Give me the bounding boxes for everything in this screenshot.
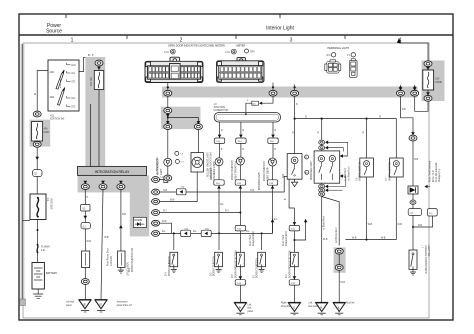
wire ignition ACC to B-F band	[79, 57, 99, 71]
connector mark GRY	[245, 49, 249, 53]
svg-text:w/ Motor Roof: w/ Motor Roof	[323, 216, 326, 230]
option return arrows	[325, 185, 328, 189]
connector mark P1	[351, 53, 355, 57]
wire lamp box to relay pin3	[159, 172, 197, 202]
relay right pin 2	[151, 190, 154, 194]
B-F harness band	[85, 57, 105, 167]
svg-text:DOOR COURTESY: DOOR COURTESY	[232, 160, 234, 180]
fuse 40A MAIN	[32, 122, 43, 142]
svg-text:panel: panel	[248, 311, 254, 313]
stub from connector A	[167, 83, 169, 91]
svg-text:O-R: O-R	[250, 190, 254, 192]
wire relay pin5 to courtesy sw front LH	[159, 223, 171, 233]
svg-text:Roof left: Roof left	[346, 302, 355, 305]
connector mark C9b	[175, 160, 179, 164]
svg-text:R-B: R-B	[122, 214, 126, 216]
svg-text:1E: 1E	[34, 174, 37, 176]
wire relay pin4 to chain B	[159, 212, 240, 214]
junction splice	[167, 117, 169, 119]
wire ignition to main fuse	[37, 71, 48, 112]
svg-text:W-B: W-B	[398, 224, 403, 226]
wire splice to key cyl lamp	[167, 129, 169, 158]
svg-text:INTERIOR LIGHT: INTERIOR LIGHT	[259, 171, 261, 190]
relay right pin 5	[151, 221, 154, 225]
column ticks	[126, 35, 128, 39]
chain relay pin1 down: wire P	[84, 189, 86, 204]
connector mark W2	[331, 53, 335, 57]
chain relay pin3 down	[120, 189, 122, 251]
chain B door courtesy light front	[240, 143, 242, 157]
left band bottom cap	[20, 299, 26, 306]
svg-text:W-B: W-B	[323, 239, 328, 241]
inner drawing box	[23, 43, 429, 318]
lamp ignition key cylinder light	[164, 158, 172, 166]
svg-text:From CD Automatic: From CD Automatic	[435, 161, 438, 182]
svg-text:C 10: C 10	[225, 52, 231, 54]
inline comp T10	[176, 189, 186, 195]
svg-text:Deterrent ECU: Deterrent ECU	[285, 231, 288, 246]
svg-text:DOOR COURTESY: DOOR COURTESY	[214, 256, 216, 276]
svg-text:Interior Light: Interior Light	[266, 26, 294, 32]
svg-text:LIGHT SW: LIGHT SW	[427, 245, 429, 257]
inline code comp D14	[181, 230, 191, 236]
fusible link FL MAIN	[37, 245, 38, 252]
J3 drop C	[272, 122, 274, 138]
svg-text:W-B: W-B	[87, 241, 92, 243]
relay right pin 4	[151, 211, 154, 215]
svg-text:CYLINDER LIGHT: CYLINDER LIGHT	[214, 161, 216, 180]
relay bottom pin 2	[101, 181, 105, 184]
junction courtesy rear RH	[261, 232, 263, 234]
inline code comp D15	[201, 230, 211, 236]
ground triangle center	[95, 300, 107, 312]
node dot A	[167, 86, 169, 88]
svg-text:DOOR OPEN DETECTION: DOOR OPEN DETECTION	[289, 250, 291, 278]
svg-text:From Theft Deterrent: From Theft Deterrent	[429, 161, 432, 182]
svg-text:VANITY LIGHT LH: VANITY LIGHT LH	[359, 162, 362, 181]
svg-text:From Power Door: From Power Door	[107, 248, 110, 266]
connector oval B-F	[95, 60, 103, 66]
connector oval dome bottom	[424, 95, 432, 101]
svg-text:IH: IH	[239, 305, 242, 309]
ignition switch H11	[48, 60, 79, 121]
node dot B	[272, 86, 274, 88]
page arrow up	[397, 38, 401, 43]
svg-text:kick panel: kick panel	[281, 306, 292, 308]
svg-text:LIGHT [COMB. METER]: LIGHT [COMB. METER]	[205, 152, 207, 177]
code pill	[412, 204, 414, 208]
door courtesy sw front RH	[215, 252, 223, 266]
svg-text:kick panel: kick panel	[309, 306, 320, 308]
wire dome to band node E	[415, 96, 428, 111]
R-L bus from relay pin6	[159, 232, 180, 234]
svg-text:LIGHT: LIGHT	[161, 168, 163, 175]
fuse 15A TAIL	[94, 71, 103, 90]
door control rect	[82, 251, 90, 268]
personal light box R15	[314, 151, 340, 183]
header separator line	[19, 34, 453, 36]
junction	[37, 229, 39, 231]
svg-text:IE: IE	[83, 303, 86, 307]
wire band C to interior light	[294, 96, 296, 154]
battery	[32, 263, 58, 290]
svg-text:panel brace LH: panel brace LH	[117, 304, 133, 307]
ground triangle left kick	[316, 302, 328, 314]
luggage compartment light sw	[409, 250, 417, 269]
svg-text:R-B: R-B	[414, 159, 418, 161]
svg-text:PERSONAL LIGHT: PERSONAL LIGHT	[328, 47, 350, 50]
svg-text:DOME: DOME	[435, 82, 442, 84]
wire to fuse block	[36, 147, 38, 194]
svg-text:Left kick: Left kick	[66, 301, 75, 304]
vanity light LH	[360, 158, 374, 177]
door courtesy sw rear RH	[258, 252, 266, 266]
connector mark C10 right	[231, 49, 236, 54]
interior light door-signal wire	[289, 179, 294, 208]
wire in band left	[90, 104, 92, 167]
svg-text:Source: Source	[46, 29, 62, 35]
J3 drop A	[219, 122, 221, 138]
svg-text:BATTERY: BATTERY	[46, 272, 58, 275]
wire comp to interior light	[186, 176, 287, 192]
svg-text:2: 2	[180, 38, 183, 44]
feed wire to personal and vanity lights	[295, 119, 397, 158]
theft deterrent feed arrow 1	[271, 219, 275, 222]
fuse 15A DOME	[423, 70, 434, 90]
wire band D down with jog	[401, 96, 414, 133]
svg-text:From Theft: From Theft	[249, 235, 252, 246]
vanity light RH	[390, 158, 404, 177]
splice grey box	[161, 107, 201, 129]
svg-text:W-B: W-B	[381, 237, 386, 239]
J3 drop B	[240, 122, 242, 138]
svg-text:Right: Right	[281, 302, 287, 305]
connector oval on band 2	[269, 90, 277, 96]
code box right	[428, 209, 438, 216]
svg-text:IG: IG	[99, 303, 102, 307]
inline oval 2	[410, 200, 416, 204]
svg-text:R-Y: R-Y	[225, 210, 229, 212]
wire vanity LH down to bus	[366, 177, 368, 240]
svg-text:W-B: W-B	[341, 282, 346, 284]
svg-text:LUGGAGE COMPARTMENT: LUGGAGE COMPARTMENT	[424, 245, 427, 275]
svg-text:FL MAIN: FL MAIN	[41, 246, 50, 249]
battery ground	[37, 289, 39, 294]
connector block B	[217, 58, 265, 83]
svg-text:W-B: W-B	[104, 237, 109, 239]
svg-text:JUNCTION: JUNCTION	[214, 107, 226, 109]
chain C door courtesy light rear	[272, 143, 274, 158]
svg-text:15A TAIL: 15A TAIL	[90, 76, 93, 86]
svg-text:AM2: AM2	[50, 96, 55, 99]
comb meter indicator lamp box	[197, 129, 199, 152]
wire in band right / fuse TAIL	[98, 66, 100, 71]
connector mark C10 left	[170, 49, 175, 54]
node dot D	[399, 86, 401, 88]
connector oval below 40A fuse	[33, 141, 41, 147]
svg-text:KEY CYLINDER: KEY CYLINDER	[158, 158, 160, 175]
svg-text:DIODE: DIODE	[134, 219, 142, 222]
feed ovals top	[319, 140, 325, 144]
svg-text:B - F: B - F	[88, 54, 94, 57]
svg-text:DOOR COURTESY SW: DOOR COURTESY SW	[132, 247, 134, 272]
junction connector J3 busbar	[214, 113, 280, 123]
svg-text:INTEGRATION RELAY: INTEGRATION RELAY	[95, 170, 130, 174]
ground triangle left kick panel	[79, 300, 91, 312]
header tick power source	[65, 14, 67, 18]
svg-text:W-B: W-B	[368, 224, 373, 226]
junction pin4 wire	[239, 212, 241, 214]
relay bottom pin 1	[84, 181, 88, 184]
svg-text:Left Motor Roof: Left Motor Roof	[335, 227, 338, 243]
header tick interior light	[279, 14, 281, 18]
svg-text:VANITY LIGHT RH: VANITY LIGHT RH	[388, 162, 391, 181]
T ground under rect	[118, 268, 124, 274]
interior light ground	[294, 179, 296, 182]
svg-text:Changer (7+): Changer (7+)	[438, 168, 441, 182]
svg-text:Left: Left	[309, 302, 313, 305]
dome grey box	[422, 61, 445, 102]
bottom ovals	[319, 184, 325, 188]
junction vanity LH	[365, 118, 367, 120]
svg-text:LIGHT FRONT LH: LIGHT FRONT LH	[235, 161, 237, 180]
wire to vanity LH	[366, 119, 368, 158]
door courtesy sw front LH	[170, 252, 178, 266]
svg-text:DOOR COURTESY: DOOR COURTESY	[257, 258, 259, 278]
theft deterrent notes	[424, 185, 427, 189]
relay right pin 1	[151, 178, 154, 182]
svg-text:CONNECTOR: CONNECTOR	[214, 110, 229, 112]
diode D inside relay	[133, 217, 146, 227]
svg-text:DOOR COURTESY: DOOR COURTESY	[264, 161, 266, 181]
connector 40A fuse group grey	[30, 120, 51, 147]
connector oval splice bottom right	[194, 124, 202, 130]
svg-text:W-B: W-B	[352, 237, 357, 239]
svg-text:From Theft: From Theft	[282, 235, 285, 246]
svg-text:2.0L: 2.0L	[41, 250, 46, 252]
theft deterrent feed arrow 2	[304, 219, 308, 222]
W-B bus	[345, 239, 396, 241]
inline connector oval	[411, 132, 415, 135]
wire stub to left band	[23, 220, 31, 222]
connector oval on band 5	[413, 88, 417, 91]
wire personal light down	[321, 196, 323, 302]
svg-text:panel: panel	[66, 305, 72, 307]
wire lamp oval to relay pin1	[159, 180, 168, 183]
svg-text:IK: IK	[320, 305, 323, 309]
relay right pin 6	[151, 232, 154, 236]
fuse block	[30, 194, 46, 220]
svg-text:w/ Rear Roof: w/ Rear Roof	[344, 167, 347, 181]
roof note arrows	[340, 154, 343, 158]
code box I12	[81, 223, 90, 229]
connector mark C9	[175, 151, 179, 155]
svg-text:MAIN: MAIN	[44, 131, 50, 134]
code box I15	[81, 205, 90, 212]
wire top feed to dome	[399, 43, 428, 61]
svg-text:3: 3	[290, 38, 293, 44]
connector oval on band 3	[291, 90, 299, 96]
svg-text:Instrument: Instrument	[117, 301, 128, 304]
INTEGRATION RELAY title bar	[78, 166, 147, 175]
junction chain A	[218, 232, 220, 234]
connector mark B9	[305, 170, 309, 174]
svg-text:w/o Rear Roof: w/o Rear Roof	[347, 166, 350, 181]
svg-text:PERSONAL LIGHT: PERSONAL LIGHT	[310, 160, 313, 180]
wire band to splice	[167, 96, 169, 108]
svg-text:L-R: L-R	[161, 177, 165, 179]
grey inline connector	[334, 247, 346, 272]
option feed arrows into ovals	[325, 141, 328, 145]
ground triangle roof	[333, 302, 345, 314]
wire from personal light right	[322, 197, 340, 246]
svg-text:15A: 15A	[435, 78, 440, 81]
chain relay pin2 down long wire	[101, 189, 103, 299]
connector block A comb meter	[145, 57, 203, 82]
svg-text:LIGHT REAR: LIGHT REAR	[266, 167, 269, 181]
splice code box on wire	[252, 101, 259, 105]
connector oval	[81, 279, 89, 285]
svg-text:O-R: O-R	[163, 190, 167, 192]
svg-text:METER: METER	[237, 44, 246, 47]
wire fuse block to battery	[37, 220, 39, 263]
wire relay pin2 through resistor comp	[159, 191, 176, 193]
svg-text:DOOR OPEN DETECTION: DOOR OPEN DETECTION	[235, 250, 237, 278]
svg-text:DOOR COURTESY: DOOR COURTESY	[169, 256, 171, 276]
svg-text:R-Y: R-Y	[163, 210, 167, 212]
svg-text:Deterrent ECU: Deterrent ECU	[252, 231, 255, 246]
wire vanity RH down to bus corner	[395, 177, 397, 240]
connector oval on band 1	[164, 90, 172, 96]
connector oval above 40A fuse	[33, 111, 41, 117]
connector oval splice bottom left	[164, 124, 172, 130]
harness band	[162, 87, 418, 98]
wire oval B to J3	[260, 96, 273, 103]
svg-text:AM1: AM1	[50, 71, 55, 74]
svg-text:FUSE BOX: FUSE BOX	[49, 198, 51, 210]
svg-text:2-J: 2-J	[46, 198, 48, 201]
lamp low side oval	[167, 166, 169, 176]
node dot C	[294, 86, 296, 88]
svg-text:1: 1	[71, 38, 74, 44]
INTEGRATION RELAY grey body	[78, 175, 147, 192]
junction courtesy front LH	[173, 232, 175, 234]
svg-text:40A: 40A	[44, 128, 49, 131]
svg-text:ECU+ *A-A*: ECU+ *A-A*	[432, 170, 435, 182]
splice arrow right	[197, 121, 201, 124]
splice arrow left	[166, 121, 170, 124]
connector oval on band 4	[399, 88, 403, 91]
svg-text:DOOR KEY: DOOR KEY	[211, 168, 213, 180]
svg-text:C 10: C 10	[164, 52, 170, 54]
relay right pin 3	[151, 200, 154, 204]
svg-text:ACC: ACC	[71, 64, 76, 67]
svg-text:DOOR LIGHT: DOOR LIGHT	[126, 262, 128, 277]
svg-text:R-B: R-B	[418, 225, 422, 227]
svg-text:Lock ECU: Lock ECU	[111, 255, 113, 266]
svg-text:R-B: R-B	[402, 109, 406, 111]
svg-text:OPEN DOOR INDICATOR LIGHT[COMB: OPEN DOOR INDICATOR LIGHT[COMB. METER]	[168, 44, 225, 47]
svg-text:Left: Left	[248, 304, 252, 307]
svg-text:GRY: GRY	[250, 51, 255, 53]
connector mark B5	[305, 155, 309, 159]
junction to personal light feed	[294, 118, 296, 120]
connector oval splice top	[164, 108, 172, 114]
door open detection sw front	[235, 226, 245, 231]
svg-text:IGNITION SW: IGNITION SW	[50, 119, 65, 121]
left shielded wire band	[21, 44, 25, 302]
connector oval dome top	[424, 61, 432, 67]
code box with arrow	[408, 186, 418, 194]
interior light R13	[287, 154, 302, 180]
instrument panel light rect	[118, 251, 125, 268]
door open detection sw rear	[289, 226, 299, 231]
node dot E	[414, 86, 416, 88]
junction to code box	[412, 226, 414, 228]
chain A door key cylinder light	[219, 143, 221, 158]
personal light connector W	[325, 60, 341, 73]
splice code box E01	[33, 170, 42, 177]
relay bottom pin 3	[119, 181, 123, 184]
personal light connector P	[350, 59, 358, 78]
